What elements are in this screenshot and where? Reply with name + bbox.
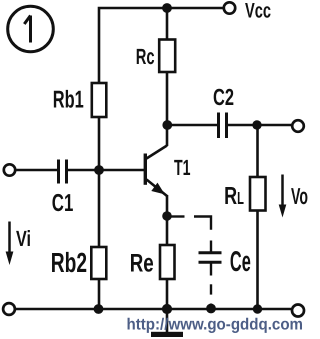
svg-text:RL: RL bbox=[224, 183, 244, 210]
svg-text:Vi: Vi bbox=[16, 226, 31, 251]
svg-text:Rb2: Rb2 bbox=[51, 247, 87, 278]
svg-text:C1: C1 bbox=[52, 190, 74, 217]
svg-text:Vo: Vo bbox=[291, 183, 308, 209]
svg-text:http://www.go-gddq.com: http://www.go-gddq.com bbox=[127, 316, 304, 334]
svg-text:Rb1: Rb1 bbox=[53, 87, 84, 114]
svg-text:Ce: Ce bbox=[230, 246, 251, 278]
svg-text:T1: T1 bbox=[174, 155, 191, 180]
svg-text:Vcc: Vcc bbox=[245, 0, 271, 23]
svg-text:C2: C2 bbox=[213, 84, 234, 110]
svg-text:Rc: Rc bbox=[136, 44, 155, 69]
svg-text:Re: Re bbox=[130, 250, 154, 278]
